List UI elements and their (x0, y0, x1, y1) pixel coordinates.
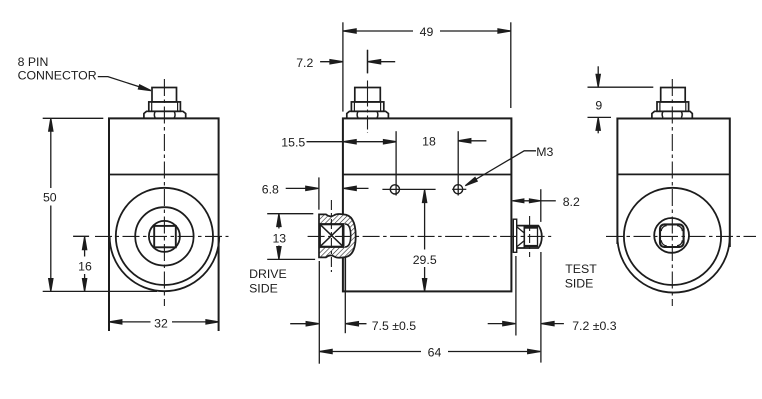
right view square socket (660, 224, 684, 247)
middle view body rectangle (343, 118, 512, 291)
left view connector hex nut (144, 111, 186, 118)
svg-text:15.5: 15.5 (281, 136, 305, 150)
left view middle circle (135, 207, 193, 265)
svg-text:8.2: 8.2 (563, 195, 580, 209)
left view connector cap (152, 88, 177, 102)
left view vertical centerline (163, 79, 165, 306)
svg-text:18: 18 (422, 135, 436, 149)
dimension 15.5 (307, 131, 397, 195)
right view socket boss circle (654, 218, 689, 253)
test shaft inner lines (523, 226, 525, 248)
middle view connector hex nut (347, 111, 389, 118)
svg-text:7.2: 7.2 (296, 56, 313, 70)
svg-text:6.8: 6.8 (262, 183, 279, 197)
right view connector cap (661, 88, 686, 102)
svg-text:7.5 ±0.5: 7.5 ±0.5 (372, 319, 417, 333)
dimension 50 (43, 118, 157, 291)
middle view connector collar (351, 102, 383, 111)
dimension 9 (588, 66, 654, 133)
drive shaft band edges (319, 214, 343, 258)
svg-text:49: 49 (420, 25, 434, 39)
drive shaft hatched bottom band (319, 236, 356, 258)
dimension 6.8 (286, 177, 369, 209)
drive shaft vertical centerline (330, 200, 332, 272)
dimension 7.2 +-0.3 (488, 252, 564, 363)
svg-text:CONNECTOR: CONNECTOR (18, 69, 97, 83)
dimension 32 (109, 320, 218, 324)
drive shaft outer bulge arc (343, 214, 356, 257)
leader 8 pin connector (98, 77, 147, 90)
right view connector collar (657, 102, 689, 111)
left view horizontal centerline (95, 235, 229, 237)
svg-text:50: 50 (43, 191, 57, 205)
dimension 13 (267, 214, 315, 260)
svg-text:DRIVE: DRIVE (249, 267, 287, 281)
test shaft outline (517, 226, 542, 248)
right view connector hex nut (652, 111, 692, 117)
drive shaft hatched top band (319, 214, 356, 236)
svg-text:SIDE: SIDE (249, 282, 278, 296)
right view divider line (617, 173, 729, 175)
svg-text:9: 9 (595, 98, 602, 112)
svg-text:SIDE: SIDE (565, 277, 594, 291)
svg-text:64: 64 (428, 346, 442, 360)
left view connector collar (149, 102, 181, 111)
dimension 18 (458, 131, 486, 195)
middle view divider line (343, 174, 512, 176)
left view body outline (109, 118, 219, 331)
svg-text:29.5: 29.5 (413, 253, 437, 267)
middle view connector centerline (367, 50, 369, 74)
right view body outline (617, 119, 729, 248)
middle view horizontal centerline (308, 235, 552, 237)
dimension 49 (343, 22, 511, 111)
svg-text:13: 13 (272, 232, 286, 246)
left view square bore (154, 226, 176, 247)
dimension 7.2 top (320, 50, 395, 73)
left view bottom cylinder arc (110, 236, 220, 291)
svg-text:TEST: TEST (565, 262, 597, 276)
dimension 7.5 +-0.5 (290, 261, 366, 364)
right view bottom cylinder arc (617, 236, 729, 292)
drive shaft square with X (320, 224, 344, 247)
svg-text:M3: M3 (536, 145, 553, 159)
dimension 64 (320, 349, 541, 353)
left view inner circle (149, 221, 180, 252)
svg-text:32: 32 (154, 316, 168, 330)
left view divider line (109, 174, 219, 176)
svg-text:8 PIN: 8 PIN (18, 55, 49, 69)
dimension 8.2 (513, 189, 556, 222)
left view outer circle (116, 188, 213, 285)
dimension 16 (73, 236, 89, 291)
svg-text:7.2 ±0.3: 7.2 ±0.3 (572, 319, 617, 333)
M3 hole right (454, 185, 463, 194)
test shaft washer plate (513, 219, 516, 252)
svg-text:16: 16 (78, 260, 92, 274)
test shaft vertical centerline (529, 216, 531, 257)
right view vertical centerline (671, 79, 673, 306)
right view outer circle (624, 188, 721, 285)
M3 hole left (390, 185, 399, 194)
right view horizontal centerline (606, 235, 756, 237)
middle view connector cap (355, 88, 381, 102)
dimension 29.5 (423, 190, 427, 291)
drive shaft inner bulge arc (345, 224, 351, 247)
middle view flange edge below shaft (344, 258, 346, 291)
